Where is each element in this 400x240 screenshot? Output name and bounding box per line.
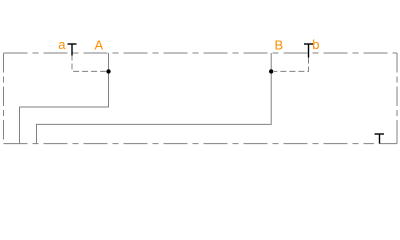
enclosure boundary (dash-dot frame) [4, 53, 398, 144]
test point a (T symbol) [68, 44, 77, 56]
wire port B down-left to bottom boundary [37, 53, 272, 144]
junction node A (dot) [106, 69, 110, 73]
test point b (T symbol) [304, 44, 313, 58]
svg-text:B: B [275, 37, 284, 52]
test point T (bottom right, T symbol) [375, 134, 385, 144]
junction node B (dot) [269, 69, 273, 73]
svg-text:A: A [95, 37, 104, 52]
svg-text:b: b [312, 37, 319, 52]
measurement line from test point a to node A (dashed) [72, 55, 106, 72]
measurement line from test point b to node B (dashed) [274, 58, 309, 72]
svg-text:a: a [58, 37, 66, 52]
wire port A down-left to bottom boundary [20, 53, 109, 144]
